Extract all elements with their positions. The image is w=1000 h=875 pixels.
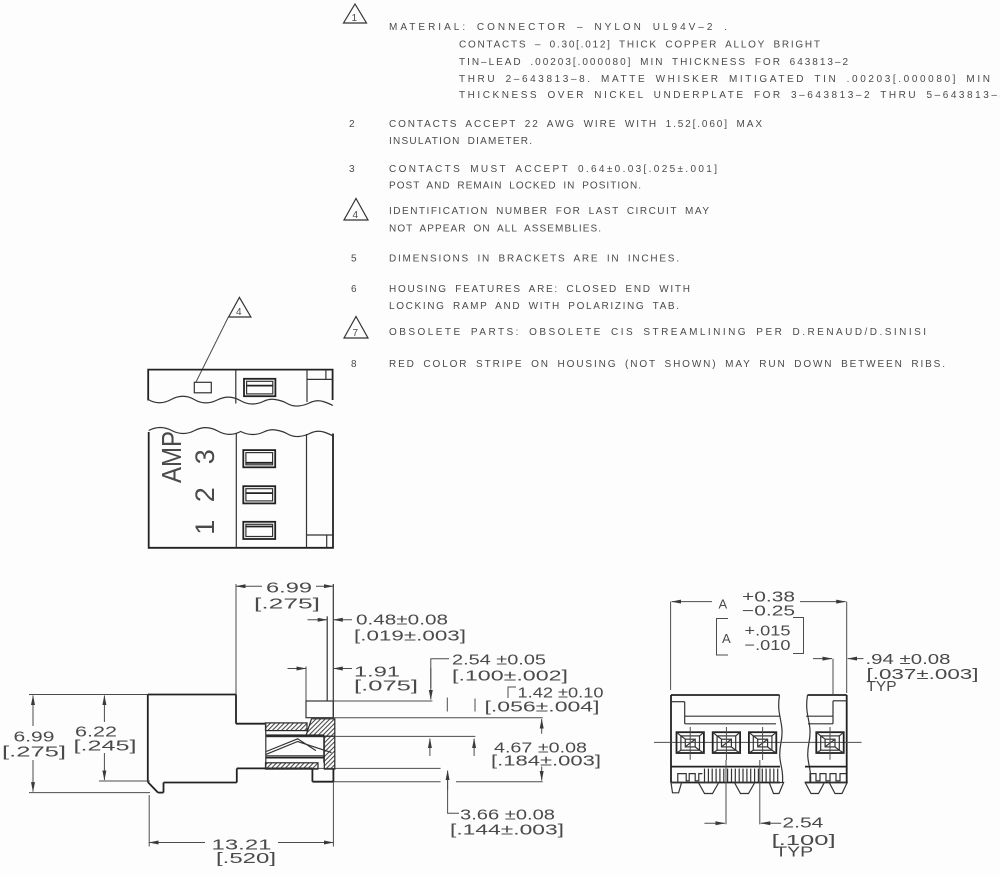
bottom edge right [805,782,847,784]
dim .94 arrow right [848,658,864,660]
dim 2.54 arrow right [761,822,781,824]
svg-text:5: 5 [351,254,357,265]
left step ledge [671,701,685,703]
foot 5 [805,783,824,794]
svg-text:A: A [722,631,731,646]
svg-text:4: 4 [236,307,242,318]
dim .94 arrow left [813,658,832,660]
contact seat line 1 [266,755,324,757]
left step wall [684,702,686,724]
dim 1.42 corner mark [508,687,516,698]
foot 1 [671,783,682,793]
bottom notch ledge [307,534,334,536]
dim 6.99 top line right [316,585,333,587]
tower inner wall [326,616,328,701]
lower wall line right [808,723,833,725]
svg-text:[.275]: [.275] [254,597,320,613]
svg-text:LOCKING RAMP AND WITH POLARIZI: LOCKING RAMP AND WITH POLARIZING TAB. [389,301,679,312]
dim 6.99 left arrows [32,696,34,727]
ref bracket right [793,618,804,654]
bottom right edge [312,781,333,783]
slot 3 inner [246,524,273,536]
dim 4.67 lower arrow [541,767,543,781]
dim 0.48 arrow left [308,619,328,621]
svg-text:4: 4 [353,210,359,221]
contact hole 3 [749,727,776,760]
svg-text:[.520]: [.520] [216,851,276,867]
dim A line left [672,601,712,603]
housing right lower edge [332,769,334,782]
upper wall line left [685,715,781,717]
dim 13.21 extension left [148,795,150,847]
plug right notch divider [325,370,327,380]
tab box [306,701,333,718]
horizontal centerline [654,741,862,743]
bottom edge left [671,782,780,784]
dim .94 extension [832,659,834,695]
svg-text:[.184±.003]: [.184±.003] [491,754,601,770]
slot 3 bar [246,526,273,528]
svg-text:[.019±.003]: [.019±.003] [354,629,466,645]
front divider wall right [306,434,308,548]
svg-text:3: 3 [190,449,220,464]
contact spring chevron 2 [266,742,331,755]
svg-text:[.275]: [.275] [2,745,66,761]
note 7 flag triangle [344,317,368,339]
wavy break right [807,695,811,783]
bottom edge stub [158,792,164,794]
tower left extension [235,584,237,695]
post witness arrows [429,739,431,756]
shoulder line right [805,766,847,768]
svg-text:[.144±.003]: [.144±.003] [450,823,564,839]
svg-text:TYP: TYP [867,679,897,695]
svg-text:1: 1 [190,520,220,535]
svg-text:A: A [719,597,728,612]
tower right wall [332,584,334,718]
foot 2 [698,783,718,794]
dim 1.91 arrow left [288,668,307,670]
bottom mid edge [237,767,313,769]
plug contact slot bar [247,385,273,387]
foot 4 [769,783,783,794]
slot 2 bar [246,492,273,494]
contact hole 2 [713,727,740,760]
TOP PLUG VIEW [148,297,333,406]
step down wall [311,768,313,781]
svg-text:6.99: 6.99 [266,581,312,597]
svg-text:2.54 ±0.05: 2.54 ±0.05 [452,653,546,669]
right step ledge [833,700,847,702]
svg-text:2.54: 2.54 [782,816,823,832]
plug housing top edge [148,370,332,401]
tab bottom extension right [333,717,543,719]
plug contact slot inner [247,381,273,394]
chamfer [148,782,158,793]
dim 3.66 leader [448,772,459,813]
svg-text:RED COLOR STRIPE ON HOUSING (N: RED COLOR STRIPE ON HOUSING (NOT SHOWN) … [389,359,945,370]
svg-text:[.056±.004]: [.056±.004] [485,700,600,716]
svg-text:3.66 ±0.08: 3.66 ±0.08 [460,808,555,824]
bottom right extension [333,781,440,783]
plug cavity divider [235,370,237,404]
svg-text:7: 7 [353,328,359,339]
polarizing tab [194,382,211,393]
bottom extension left [29,792,150,794]
contact top band hatch [266,723,308,731]
svg-text:CONTACTS – 0.30[.012] THICK CO: CONTACTS – 0.30[.012] THICK COPPER ALLOY… [459,40,820,51]
svg-text:2: 2 [190,487,220,502]
bottom mid extension [312,767,440,769]
slot 2 inner [246,489,273,501]
svg-text:8: 8 [351,359,357,370]
bottom right extension 2 [456,781,543,783]
dim 2.54 extension left [725,760,727,824]
dim 2.54 extension right [759,760,761,824]
shoulder line left [671,766,780,768]
dim A line right [800,601,846,603]
top edge left [671,694,780,696]
note 4 flag triangle [344,199,368,221]
contact dark bar [266,734,325,737]
SIDE VIEW [2,581,604,868]
dim 4.67 upper arrow [541,719,543,734]
contact holes [677,727,844,760]
svg-text:MATERIAL: CONNECTOR – NYLON UL: MATERIAL: CONNECTOR – NYLON UL94V–2 . [389,22,727,33]
left edge [670,695,672,783]
step up wall [236,768,238,782]
bottom long edge [164,782,237,784]
callout 4 triangle [229,297,251,317]
svg-text:[.075]: [.075] [354,679,418,695]
ref bracket left [717,619,729,656]
dim 6.99 top line left [236,585,262,587]
ledge to contact [236,723,266,725]
housing right step wall [235,695,237,724]
wavy break left [779,695,783,783]
svg-text:.94 ±0.08: .94 ±0.08 [866,652,951,668]
dim 2.54 arrow left [704,822,725,824]
contact bottom band hatch [266,763,319,769]
housing left edge [147,695,149,783]
svg-text:6.99: 6.99 [14,730,55,746]
svg-text:2: 2 [349,119,355,130]
svg-text:3: 3 [349,164,355,175]
right edge [846,695,848,783]
dim A extension left [670,602,672,690]
NOTES SECTION [344,4,1000,370]
contact dark bar extension [335,735,476,737]
top edge extension left [29,694,148,696]
slot 2 outer [243,486,275,503]
dim 13.21 line left [149,842,205,844]
contact right column hatch [324,736,335,769]
upper wall line right [806,715,833,717]
svg-text:AMP: AMP [156,431,187,483]
right edge extension down [332,782,334,847]
contact top right wedge hatch [306,719,335,736]
FRONT VIEW [149,428,334,548]
slot 1 bar [246,462,273,464]
bottom notch divider [326,535,328,548]
svg-text:[.245]: [.245] [74,739,137,755]
svg-text:INSULATION DIAMETER.: INSULATION DIAMETER. [389,136,532,147]
right step wall [832,701,834,724]
note 1 flag triangle [344,4,367,23]
foot 3 [734,783,754,794]
dim 6.22 arrows [103,696,105,723]
contact spring chevron 1 [266,739,316,752]
front divider wall left [235,433,237,548]
svg-text:NOT APPEAR ON ALL ASSEMBLIES.: NOT APPEAR ON ALL ASSEMBLIES. [389,224,601,235]
top edge right [808,694,847,696]
slot 1 outer [243,450,275,467]
svg-text:HOUSING FEATURES ARE: CLOSED E: HOUSING FEATURES ARE: CLOSED END WITH [389,284,690,295]
dim 6.22 bottom extension [99,780,150,782]
foot 6 [829,783,847,794]
contact hole 4 [816,727,843,760]
svg-text:[.100±.002]: [.100±.002] [452,669,568,685]
slot 1 inner [246,453,273,465]
dim 0.48 arrow right [333,619,352,621]
cavity right edge [323,737,325,763]
BOTTOM VIEW RIGHT [654,590,979,861]
tab top extension right [333,700,432,702]
svg-text:TYP: TYP [775,845,813,861]
svg-text:−.010: −.010 [745,638,791,654]
contact seat line 2 [266,757,324,759]
dim 1.42 witness ticks [446,698,448,712]
right crenellation [810,774,846,783]
svg-text:−0.25: −0.25 [742,604,795,620]
svg-text:THICKNESS OVER NICKEL UNDERPLA: THICKNESS OVER NICKEL UNDERPLATE FOR 3–6… [459,90,1000,101]
housing top edge [148,694,236,696]
dim 2.54 bracket [431,659,449,688]
comb ribs middle [705,769,778,783]
dim 13.21 line right [278,842,333,844]
svg-text:1: 1 [352,13,358,24]
lower wall line left [685,723,776,725]
bottom step [163,783,165,793]
svg-text:DIMENSIONS IN BRACKETS ARE IN: DIMENSIONS IN BRACKETS ARE IN INCHES. [389,254,679,265]
svg-text:6: 6 [351,284,357,295]
slot 3 outer [243,522,275,539]
front housing outline [149,432,333,548]
dim A extension right [846,602,848,693]
dim 1.91 arrow right [333,668,352,670]
plug right notch ledge [307,378,333,380]
tab left extension [305,667,307,702]
left crenellation [678,774,703,783]
svg-text:CONTACTS ACCEPT 22 AWG WIRE WI: CONTACTS ACCEPT 22 AWG WIRE WITH 1.52[.0… [389,119,762,130]
plug wavy break bottom [148,396,333,406]
callout 4 leader [196,317,229,383]
contact hole 1 [677,727,704,760]
plug contact slot outer [244,379,275,396]
svg-text:0.48±0.08: 0.48±0.08 [356,613,448,629]
svg-text:POST AND REMAIN LOCKED IN POSI: POST AND REMAIN LOCKED IN POSITION. [389,181,641,192]
cavity left edge [265,723,267,769]
plug right wall [306,370,308,402]
front wavy break top [149,428,334,437]
